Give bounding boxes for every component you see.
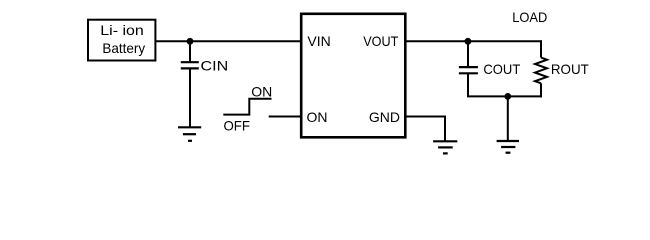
node output junction [465, 38, 472, 45]
wire to ON pin [269, 116, 302, 118]
svg-text:Li- ion: Li- ion [100, 22, 144, 38]
resistor ROUT [535, 58, 547, 84]
ground (output load) [497, 141, 519, 153]
svg-text:CIN: CIN [201, 58, 229, 74]
node output ground junction [504, 93, 511, 100]
ON/OFF step waveform [223, 99, 271, 115]
svg-text:COUT: COUT [483, 61, 520, 77]
svg-text:GND: GND [369, 109, 400, 125]
svg-text:ON: ON [251, 84, 272, 100]
svg-text:ROUT: ROUT [551, 61, 589, 77]
wire battery to VIN [156, 40, 302, 42]
capacitor CIN [181, 62, 199, 68]
wire bottom rail [467, 95, 542, 97]
svg-text:OFF: OFF [224, 118, 251, 134]
wire junction to output ground [507, 96, 509, 141]
ground (input) [178, 127, 201, 141]
svg-text:Battery: Battery [102, 40, 145, 56]
wire CIN to ground [189, 68, 191, 127]
wire junction to COUT [467, 41, 469, 67]
ground (IC GND) [433, 141, 457, 153]
wire junction to CIN [189, 41, 191, 62]
wire COUT to bottom rail [467, 73, 469, 96]
svg-text:VIN: VIN [307, 33, 330, 49]
wire GND pin [405, 117, 445, 142]
battery box (Li-ion Battery source) [88, 20, 155, 61]
svg-text:VOUT: VOUT [363, 33, 399, 49]
svg-text:ON: ON [307, 109, 328, 125]
svg-text:LOAD: LOAD [512, 9, 547, 25]
capacitor COUT [459, 67, 478, 73]
regulator IC U1 [301, 14, 405, 138]
wire rail to ROUT top [540, 40, 542, 57]
node input junction [187, 38, 194, 45]
wire VOUT rail [405, 40, 542, 42]
wire ROUT bottom [540, 83, 542, 97]
